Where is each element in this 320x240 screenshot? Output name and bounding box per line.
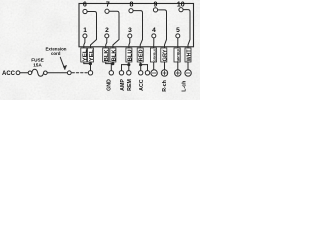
arrow extension cord pointer xyxy=(60,57,64,67)
svg-text:6: 6 xyxy=(83,1,87,8)
svg-text:8: 8 xyxy=(130,1,134,8)
svg-text:BLU: BLU xyxy=(127,49,133,61)
wire pin7 to BLK lead xyxy=(109,11,119,63)
wire pin10 to WHT lead xyxy=(183,10,190,70)
label box BLU pin3 xyxy=(126,48,132,62)
junction bar RED ACC xyxy=(140,64,147,66)
junction bar YEL pair xyxy=(84,63,91,65)
terminal R-ch plus xyxy=(161,70,167,76)
fuse F1 15A xyxy=(28,69,47,76)
terminal GND xyxy=(109,71,113,75)
pin 4 xyxy=(152,34,156,38)
terminal L-ch plus xyxy=(175,70,181,76)
svg-text:REM: REM xyxy=(127,79,133,91)
label box BLK pin7 xyxy=(110,48,116,62)
wire REM stem xyxy=(128,65,130,71)
label box WHT pin10 xyxy=(185,48,191,62)
terminal ACC left lead xyxy=(16,71,20,75)
wire ACC to fuse xyxy=(20,72,28,74)
pin 5 xyxy=(176,34,180,38)
wire pin9 to GRY lead xyxy=(158,10,167,70)
svg-text:YEL: YEL xyxy=(89,49,95,62)
node YEL junction dot xyxy=(89,63,91,65)
svg-text:L-ch: L-ch xyxy=(181,81,187,92)
label box RED pin8 xyxy=(137,48,143,62)
pin 7 xyxy=(105,9,109,13)
svg-text:YEL: YEL xyxy=(82,49,88,62)
label boxes wire colors xyxy=(81,48,191,62)
pin 8 xyxy=(129,9,133,13)
terminal extension cord end xyxy=(67,71,71,75)
svg-text:GRY/BLK: GRY/BLK xyxy=(153,48,157,61)
junction bar BLK pair xyxy=(106,63,113,65)
svg-text:GND: GND xyxy=(107,79,113,91)
label box GRY pin9 xyxy=(161,48,167,62)
svg-text:RED: RED xyxy=(139,49,145,61)
label box YEL pin6 xyxy=(88,48,94,62)
junction bar BLU AMP-REM xyxy=(122,64,129,66)
label box WHT/BLK pin5 xyxy=(174,48,180,62)
terminal ACC1 xyxy=(139,71,143,75)
terminal L-ch minus xyxy=(185,70,191,76)
wire pin2 down xyxy=(106,38,107,63)
wire YEL stem xyxy=(90,64,92,71)
svg-text:ACC: ACC xyxy=(139,79,145,91)
terminal REM xyxy=(127,71,131,75)
svg-text:10: 10 xyxy=(177,1,185,8)
pin 3 xyxy=(128,34,132,38)
wire ACC stem 2 xyxy=(147,65,149,71)
terminal AMP xyxy=(119,71,123,75)
node BLK junction dot xyxy=(112,63,114,65)
wire ACC stem 1 xyxy=(140,65,142,71)
pin 10 xyxy=(179,8,183,12)
node RED junction dot xyxy=(140,64,142,66)
label box YEL pin1 xyxy=(81,48,87,62)
wire dashed connector mating xyxy=(72,72,88,74)
node BLU junction dot xyxy=(128,64,130,66)
svg-text:5: 5 xyxy=(176,27,180,34)
svg-text:AMP: AMP xyxy=(120,79,126,91)
pin 2 xyxy=(105,34,109,38)
pin 6 xyxy=(83,9,87,13)
pin 1 xyxy=(83,34,87,38)
wire AMP stem xyxy=(121,65,123,71)
svg-text:ACC: ACC xyxy=(2,71,16,77)
wire pin3 down xyxy=(128,38,131,64)
terminal ACC2 xyxy=(145,71,149,75)
wire pin1 down xyxy=(84,38,85,63)
svg-text:R-ch: R-ch xyxy=(162,80,168,92)
svg-text:2: 2 xyxy=(105,27,109,34)
terminal YEL extension xyxy=(88,71,92,75)
svg-text:9: 9 xyxy=(154,1,158,8)
wire pin4 down xyxy=(153,38,155,69)
svg-text:4: 4 xyxy=(152,27,156,34)
svg-text:WHT: WHT xyxy=(187,49,193,62)
label box BLK pin2 xyxy=(103,48,109,62)
connector box J1 xyxy=(79,3,194,46)
svg-text:7: 7 xyxy=(106,1,110,8)
svg-text:1: 1 xyxy=(83,27,87,34)
svg-text:WHT/BLK: WHT/BLK xyxy=(177,48,181,61)
label box GRY/BLK pin4 xyxy=(150,48,156,62)
svg-text:BLK: BLK xyxy=(104,49,110,61)
svg-text:GRY: GRY xyxy=(162,49,168,61)
svg-text:BLK: BLK xyxy=(111,49,117,61)
wire GND stem xyxy=(110,64,112,71)
wire extension cord xyxy=(47,72,67,74)
svg-text:3: 3 xyxy=(128,27,132,34)
svg-text:15A: 15A xyxy=(33,62,42,67)
wire pin6 to YEL lead xyxy=(87,11,97,63)
terminal R-ch minus xyxy=(151,70,157,76)
wire pin8 to RED lead xyxy=(133,11,143,65)
svg-text:cord: cord xyxy=(51,51,61,56)
pin 9 xyxy=(153,8,157,12)
wire pin5 down xyxy=(177,38,179,69)
